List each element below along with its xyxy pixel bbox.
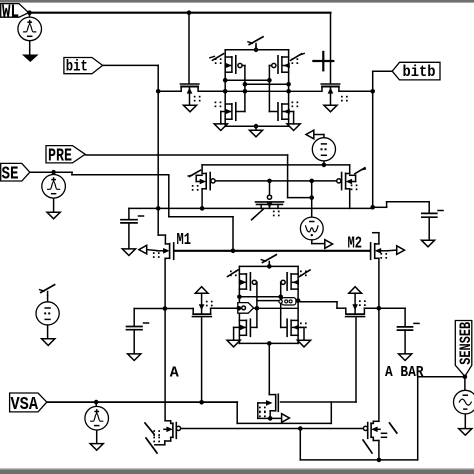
svg-text:bitb: bitb bbox=[403, 63, 436, 81]
svg-text:M1: M1 bbox=[177, 231, 192, 250]
svg-text:SE: SE bbox=[2, 165, 19, 185]
svg-text:bit: bit bbox=[66, 57, 88, 75]
svg-text:SENSEB: SENSEB bbox=[457, 322, 474, 365]
svg-text:VSA: VSA bbox=[11, 395, 39, 415]
svg-text:A: A bbox=[170, 364, 179, 381]
svg-text:M2: M2 bbox=[348, 234, 363, 253]
svg-text:A BAR: A BAR bbox=[385, 364, 424, 381]
svg-text:PRE: PRE bbox=[48, 147, 72, 167]
svg-text:WL: WL bbox=[2, 2, 19, 22]
